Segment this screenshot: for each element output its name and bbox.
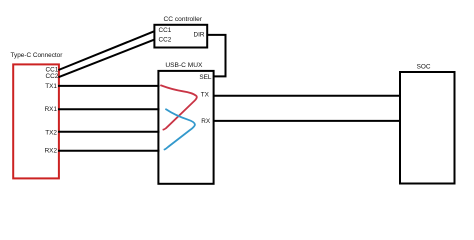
svg-text:USB-C MUX: USB-C MUX — [165, 62, 203, 69]
svg-text:CC2: CC2 — [46, 73, 59, 80]
svg-text:SEL: SEL — [199, 74, 212, 81]
wire TX2 net: connector TX2 to mux — [58, 131, 160, 133]
svg-text:Type-C Connector: Type-C Connector — [11, 52, 64, 59]
IC U1 CC controller box — [154, 25, 207, 48]
svg-text:SOC: SOC — [417, 64, 431, 71]
svg-text:CC1: CC1 — [159, 27, 172, 34]
wire DIR to SEL net: controller DIR to mux SEL — [207, 35, 226, 77]
annotation blue RX mux path: RX1 to RX and down to RX2 — [165, 109, 195, 149]
IC U2 USB-C MUX box — [158, 71, 213, 184]
svg-text:RX: RX — [201, 118, 211, 125]
annotation red TX mux path: TX1 to TX and down to TX2 — [161, 85, 197, 129]
svg-text:RX2: RX2 — [45, 148, 58, 155]
svg-text:DIR: DIR — [193, 32, 204, 39]
IC U3 SOC box — [400, 72, 455, 184]
wire TX1 net: connector TX1 to mux — [58, 85, 160, 87]
wire CC2 net: connector CC2 to controller CC2 — [59, 40, 155, 78]
svg-text:CC2: CC2 — [159, 37, 172, 44]
wire CC1 net: connector CC1 to controller CC1 — [59, 31, 155, 70]
wire RX net: mux RX to SOC — [214, 120, 401, 122]
wire TX net: mux TX to SOC — [214, 95, 401, 97]
connector J1 Type-C Connector box — [13, 64, 59, 178]
svg-text:TX1: TX1 — [45, 83, 57, 90]
wire RX1 net: connector RX1 to mux — [58, 108, 160, 110]
svg-text:TX: TX — [201, 92, 210, 99]
svg-text:RX1: RX1 — [45, 106, 58, 113]
svg-text:TX2: TX2 — [45, 130, 57, 137]
svg-text:CC controller: CC controller — [164, 16, 203, 23]
wire RX2 net: connector RX2 to mux — [58, 150, 160, 152]
